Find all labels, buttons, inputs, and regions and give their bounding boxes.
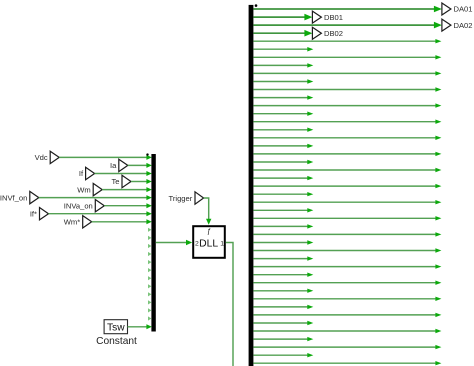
wire demux out 31 (253, 248, 441, 252)
mux unconnected port 12 (148, 244, 151, 248)
From tag Ia (110, 159, 128, 171)
mux unconnected port 15 (148, 268, 151, 272)
wire demux out 5 (253, 39, 441, 43)
wire demux out 17 (253, 136, 441, 140)
wire demux out 43 (253, 345, 441, 349)
svg-text:If: If (79, 169, 84, 178)
wire demux out 11 (253, 87, 441, 91)
From tag If (79, 167, 95, 179)
From tag Vdc (35, 151, 60, 163)
mux unconnected port 11 (148, 236, 151, 240)
mux unconnected port 18 (148, 292, 151, 296)
wire demux out 32 (253, 256, 313, 260)
wire INVa_on to Mux (104, 203, 152, 208)
mux unconnected port 20 (148, 308, 151, 312)
svg-text:Te: Te (111, 177, 119, 186)
svg-text:If*: If* (30, 209, 37, 218)
wire Tsw to Mux (128, 324, 152, 329)
Goto tag DA01 (442, 3, 473, 15)
From tag Trigger (169, 192, 204, 204)
From tag INVf_on (0, 191, 39, 203)
svg-text:Wm*: Wm* (64, 218, 80, 227)
wire demux out 44 (253, 353, 313, 357)
wire INVf_on to Mux (39, 195, 152, 200)
From tag Te (111, 175, 131, 187)
svg-text:Ia: Ia (110, 161, 117, 170)
svg-text:Tsw: Tsw (107, 323, 125, 334)
wire demux out 27 (253, 216, 441, 220)
From tag Wm* (64, 216, 92, 228)
mux unconnected port 17 (148, 284, 151, 288)
wire demux out 4 to DB02 (253, 30, 312, 37)
wire demux out 14 (253, 112, 313, 116)
wire Trigger to DLL trigger port (204, 198, 212, 225)
wire demux out 41 (253, 329, 441, 333)
mux unconnected port 14 (148, 260, 151, 264)
svg-text:Vdc: Vdc (35, 153, 48, 162)
wire demux out 12 (253, 95, 313, 99)
svg-text:DB01: DB01 (324, 13, 343, 22)
svg-text:Wm: Wm (77, 185, 91, 194)
wire demux out 40 (253, 321, 313, 325)
wire demux out 34 (253, 273, 313, 277)
wire If to Mux (95, 171, 152, 176)
From tag INVa_on (64, 200, 105, 212)
wire DLL output down (226, 243, 233, 366)
wire demux out 23 (253, 184, 441, 188)
wire demux out 7 (253, 55, 441, 59)
From tag If* (30, 208, 49, 220)
wire demux out 18 (253, 144, 313, 148)
wire Vdc to Mux (59, 155, 152, 160)
constant block Tsw (104, 320, 127, 334)
From tag Wm (77, 183, 102, 195)
wire demux out 21 (253, 168, 441, 172)
wire demux out 33 (253, 264, 441, 268)
wire demux out 20 (253, 160, 313, 164)
wire demux out 42 (253, 337, 313, 341)
Goto tag DB02 (312, 27, 343, 39)
wire demux out 22 (253, 176, 313, 180)
demux bar (249, 5, 254, 366)
mux unconnected port 21 (148, 316, 151, 320)
wire Te to Mux (131, 179, 152, 184)
S-function block DLL (193, 226, 225, 258)
wire demux out 29 (253, 232, 441, 236)
wire demux out 24 (253, 192, 313, 196)
wire demux out 13 (253, 103, 441, 107)
wire demux out 28 (253, 224, 313, 228)
wire Wm to Mux (102, 187, 152, 192)
wire Ia to Mux (128, 163, 152, 168)
wire demux out 6 (253, 47, 313, 52)
wire If* to Mux (49, 211, 152, 216)
Goto tag DB01 (312, 11, 343, 23)
wire Mux output to DLL input (156, 240, 192, 246)
wire demux out 39 (253, 313, 441, 317)
svg-text:INVf_on: INVf_on (0, 193, 27, 202)
svg-text:DA01: DA01 (454, 5, 473, 14)
mux unconnected port 16 (148, 276, 151, 280)
wire demux out 25 (253, 200, 441, 204)
mux bar (151, 154, 155, 332)
mux unconnected port 10 (148, 228, 151, 232)
wire demux out 9 (253, 71, 441, 75)
wire demux out 37 (253, 297, 441, 301)
svg-text:1: 1 (220, 240, 224, 247)
svg-text:DB02: DB02 (324, 29, 343, 38)
wire demux out 30 (253, 240, 313, 244)
svg-text:Trigger: Trigger (169, 194, 193, 203)
wire demux out 35 (253, 281, 441, 285)
wire demux out 15 (253, 120, 441, 124)
mux unconnected port 19 (148, 300, 151, 304)
svg-text:INVa_on: INVa_on (64, 201, 93, 210)
wire demux out 45 (253, 361, 441, 365)
mux unconnected port 13 (148, 252, 151, 256)
svg-text:DA02: DA02 (454, 21, 473, 30)
wire demux out 8 (253, 63, 313, 67)
svg-text:ƒ: ƒ (207, 227, 211, 236)
wire demux out 10 (253, 79, 313, 84)
annotation dot right (255, 4, 258, 7)
wire demux out 16 (253, 128, 313, 132)
wire demux out 36 (253, 289, 313, 293)
Goto tag DA02 (442, 19, 473, 31)
wire demux out 26 (253, 208, 313, 212)
wire demux out 3 to DA02 (253, 22, 442, 29)
svg-text:DLL: DLL (199, 238, 218, 249)
wire demux out 19 (253, 152, 441, 156)
wire Wm* to Mux (92, 219, 152, 224)
annotation dot left (146, 153, 148, 155)
wire demux out 38 (253, 305, 313, 309)
svg-text:Constant: Constant (96, 336, 137, 347)
wire demux out 2 to DB01 (253, 14, 312, 21)
wire demux out 1 to DA01 (253, 6, 442, 13)
